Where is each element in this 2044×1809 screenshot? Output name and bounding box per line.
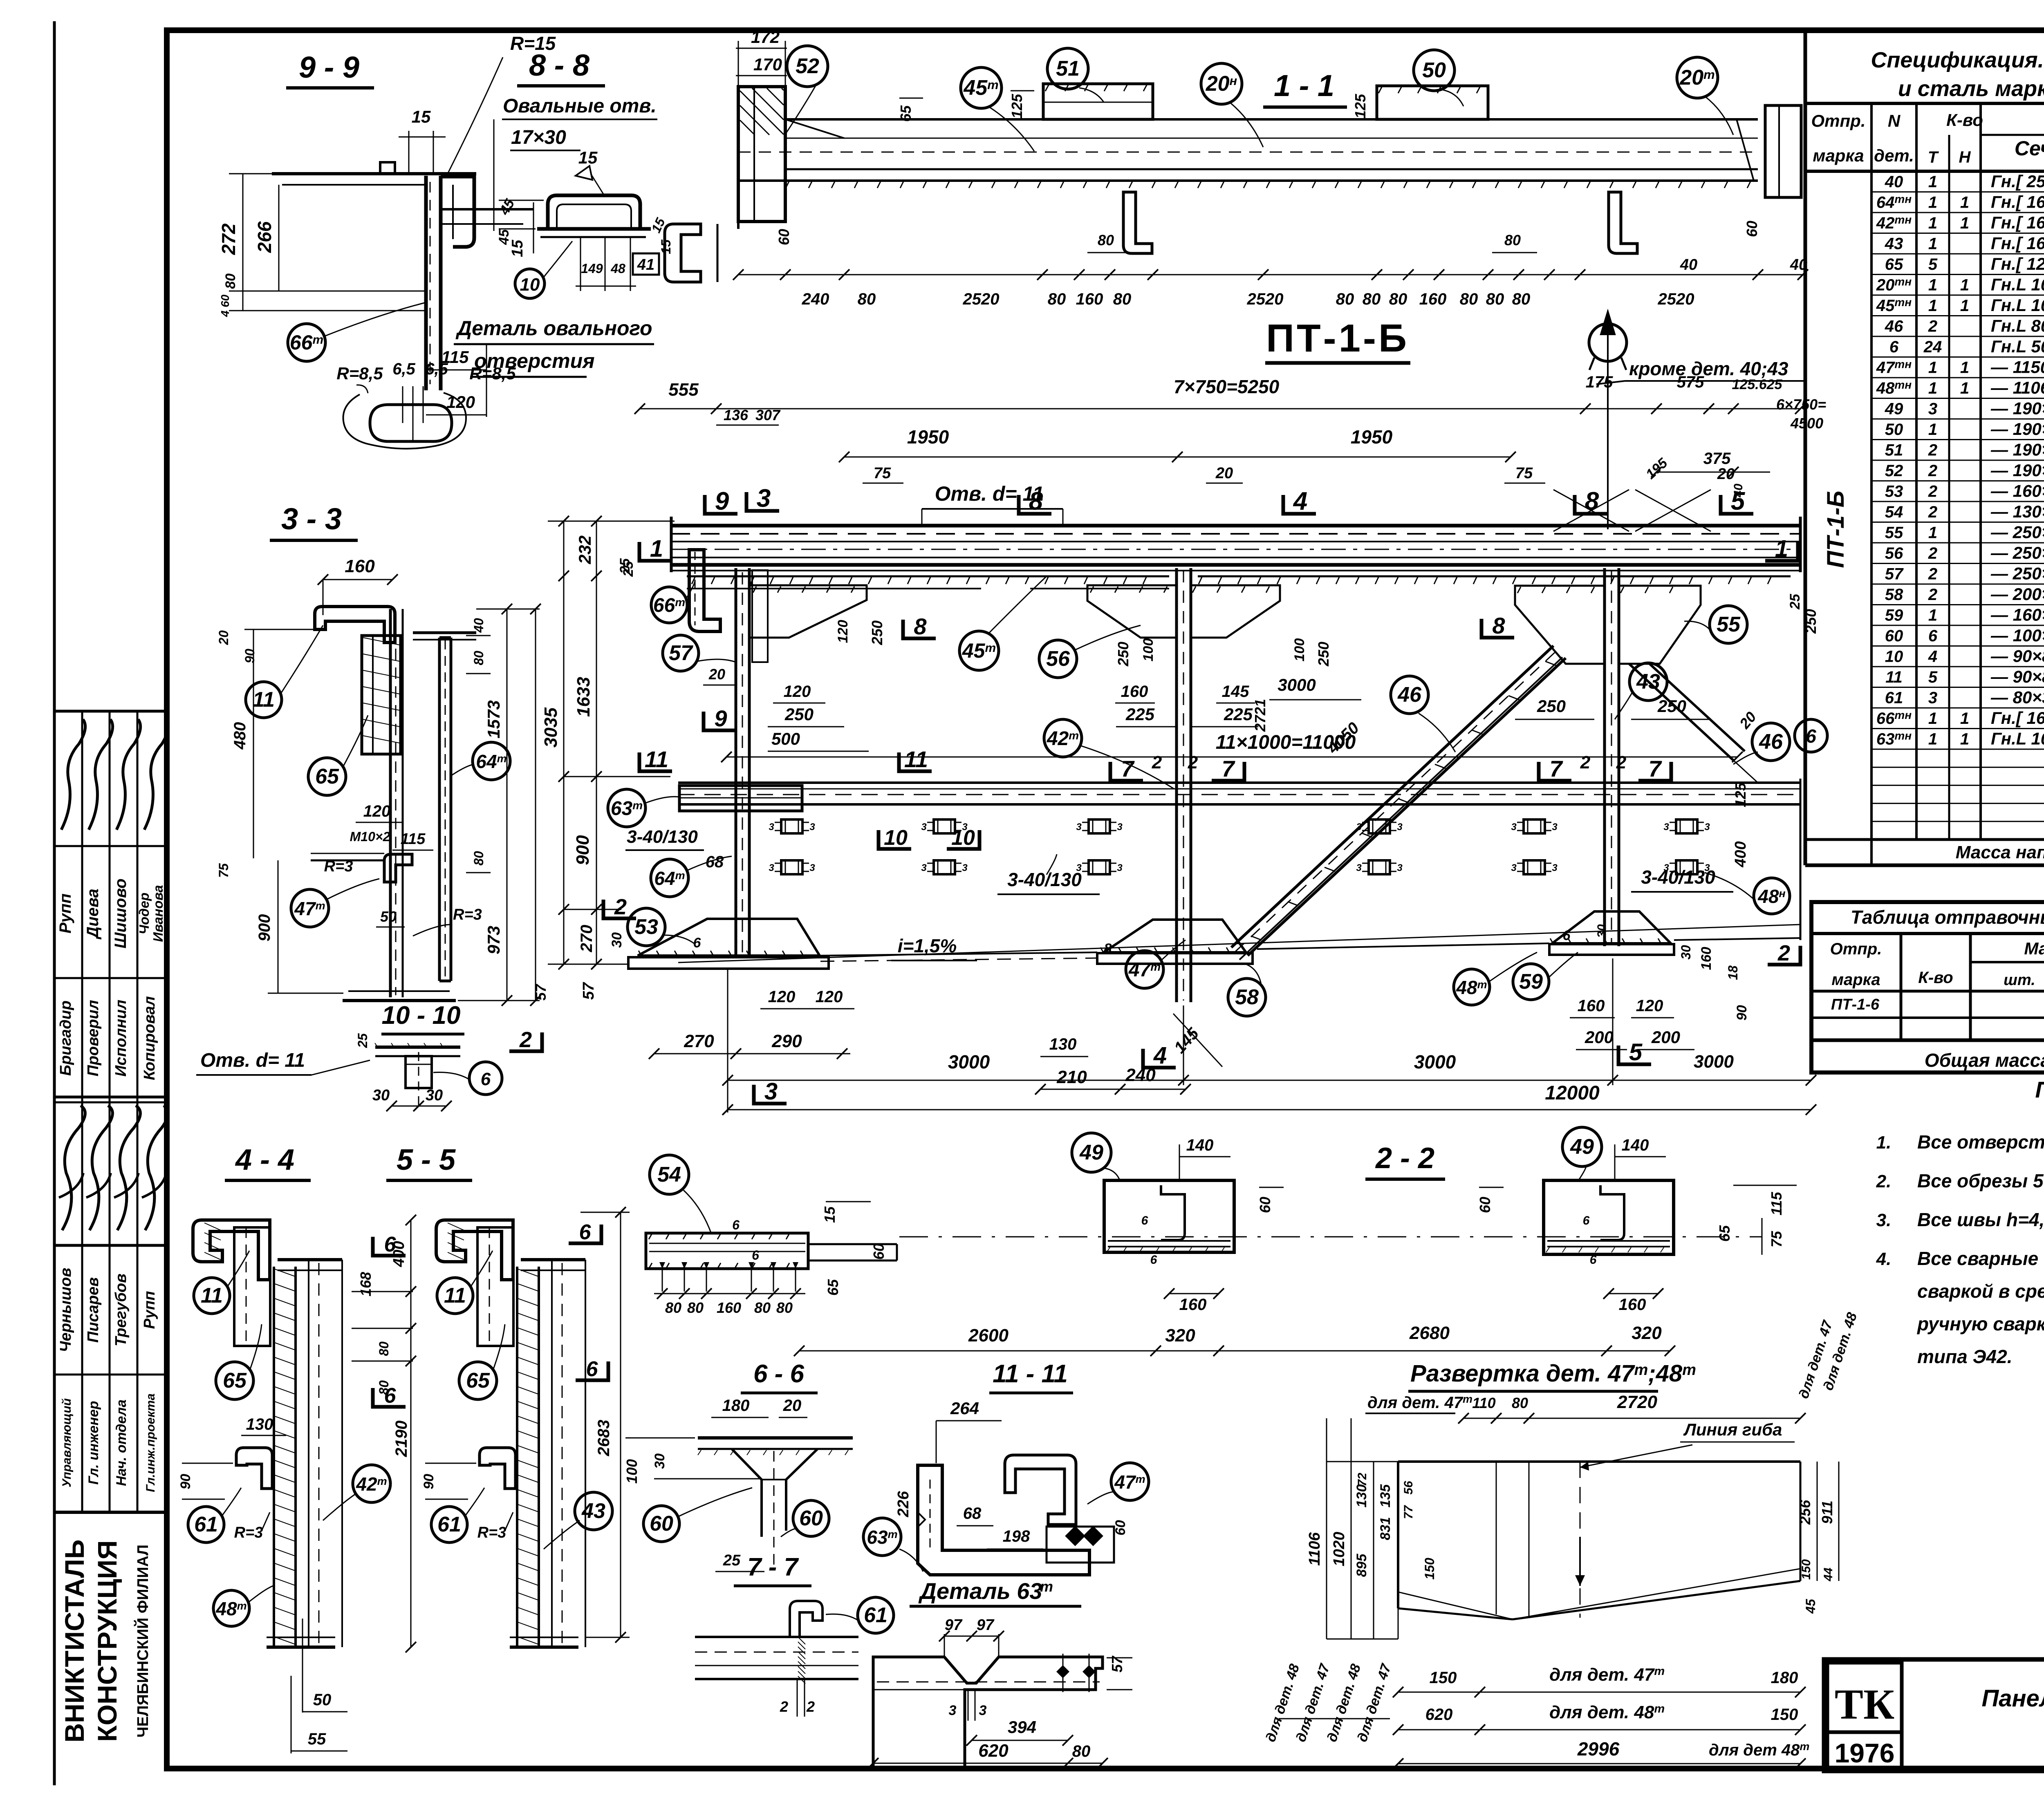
spec table grid	[1805, 102, 2044, 105]
svg-text:Гн.L 50×3: Гн.L 50×3	[1991, 337, 2044, 356]
3-3 post member	[389, 609, 392, 997]
stamp column outline	[54, 710, 167, 713]
svg-text:2: 2	[1188, 752, 1198, 772]
svg-text:90: 90	[242, 649, 257, 663]
svg-text:5 - 5: 5 - 5	[397, 1144, 456, 1176]
2-2 box 49 right dims	[1609, 1293, 1658, 1294]
1-1 left end plate 52	[738, 87, 785, 222]
svg-text:1: 1	[1928, 524, 1937, 542]
svg-text:2: 2	[1928, 544, 1937, 562]
svg-text:1: 1	[1928, 421, 1937, 439]
1-1 beam body	[785, 118, 1758, 121]
svg-text:11: 11	[1885, 668, 1903, 686]
svg-text:90: 90	[421, 1474, 437, 1489]
sloped bottom edge i=1.5%	[820, 952, 1097, 956]
svg-text:25: 25	[723, 1552, 741, 1569]
svg-text:80: 80	[1113, 290, 1132, 308]
svg-text:264: 264	[950, 1399, 979, 1418]
svg-text:59: 59	[1885, 607, 1903, 625]
3-3 balloons	[246, 682, 282, 718]
svg-text:58: 58	[1235, 985, 1259, 1009]
svg-text:60: 60	[870, 1243, 887, 1260]
svg-text:68: 68	[706, 853, 724, 871]
section 4-4 main bar	[273, 1267, 275, 1647]
svg-text:11 - 11: 11 - 11	[993, 1360, 1068, 1388]
balloon 48н right	[1754, 878, 1790, 914]
section 4-4 hanging plate 65	[234, 1227, 270, 1346]
post 3 (right upright)	[1603, 568, 1606, 946]
svg-text:3-40/130: 3-40/130	[1641, 866, 1715, 888]
svg-text:— 90×8: — 90×8	[1990, 647, 2044, 666]
svg-text:R=8,5: R=8,5	[336, 364, 383, 383]
svg-text:3: 3	[1511, 862, 1517, 873]
11-11 channel on right	[1005, 1455, 1076, 1525]
svg-text:180: 180	[722, 1397, 750, 1415]
svg-text:973: 973	[484, 926, 503, 954]
svg-text:К-во: К-во	[1918, 969, 1953, 987]
svg-text:4 - 4: 4 - 4	[235, 1144, 294, 1176]
1-1 hanger under 50	[1609, 192, 1637, 253]
svg-text:80: 80	[223, 273, 238, 289]
stamp signatures upper block	[61, 719, 85, 830]
svg-text:30: 30	[1679, 945, 1693, 960]
svg-text:50: 50	[1885, 421, 1903, 439]
10-10 dims 30 30	[392, 1106, 446, 1107]
svg-text:46: 46	[1397, 683, 1422, 707]
svg-text:3: 3	[1663, 822, 1669, 833]
section 5-5 top channel 11	[436, 1220, 513, 1280]
svg-text:10: 10	[520, 275, 540, 295]
main view section flags above chord	[705, 495, 737, 514]
svg-text:150: 150	[1771, 1706, 1798, 1724]
post 2 (central upright)	[1175, 568, 1178, 1002]
svg-text:125: 125	[1352, 94, 1369, 119]
svg-text:1: 1	[1928, 359, 1937, 377]
svg-text:11: 11	[904, 746, 928, 772]
bolt clusters on lower panel	[781, 819, 802, 833]
section 9-9 right small flange	[441, 208, 533, 210]
svg-text:2: 2	[1928, 318, 1937, 336]
section 8-8 balloon 10	[515, 269, 545, 298]
balloon 43	[1629, 663, 1667, 701]
svg-text:ЧЕЛЯБИНСКИЙ ФИЛИАЛ: ЧЕЛЯБИНСКИЙ ФИЛИАЛ	[133, 1545, 152, 1737]
section 9-9 top right channel piece	[441, 177, 474, 247]
svg-text:1106: 1106	[1306, 1532, 1323, 1566]
svg-text:3: 3	[1397, 822, 1403, 833]
svg-text:2520: 2520	[1247, 290, 1284, 308]
diagonal hatch ticks	[1251, 661, 1556, 940]
svg-text:240: 240	[802, 290, 829, 308]
svg-text:130: 130	[1049, 1035, 1077, 1053]
svg-text:Рупп: Рупп	[56, 893, 74, 934]
svg-text:49: 49	[1570, 1135, 1594, 1159]
svg-text:1020: 1020	[1331, 1532, 1348, 1567]
svg-text:100: 100	[1141, 638, 1156, 662]
svg-text:2: 2	[1928, 441, 1937, 459]
top chord member	[671, 524, 1800, 528]
svg-text:45: 45	[1803, 1599, 1818, 1614]
svg-text:65: 65	[466, 1369, 490, 1393]
svg-text:125: 125	[1732, 782, 1749, 807]
svg-text:80: 80	[1389, 290, 1407, 308]
svg-text:6,5: 6,5	[425, 360, 448, 378]
svg-text:80: 80	[471, 851, 486, 866]
svg-text:— 130×12: — 130×12	[1990, 502, 2044, 521]
svg-text:6: 6	[481, 1069, 491, 1089]
development right dim ladder	[1817, 1462, 1818, 1581]
svg-text:65: 65	[223, 1369, 247, 1393]
svg-text:2520: 2520	[1658, 290, 1694, 308]
svg-text:1: 1	[1960, 379, 1969, 397]
svg-text:3000: 3000	[1277, 675, 1316, 694]
section 5-5 top cap	[521, 1258, 585, 1261]
svg-text:1950: 1950	[907, 426, 949, 448]
svg-text:марка: марка	[1813, 146, 1864, 165]
svg-text:4500: 4500	[1790, 415, 1823, 432]
svg-text:43: 43	[581, 1499, 605, 1523]
svg-text:6: 6	[1583, 1214, 1590, 1227]
section 8-8 channel (lying)	[548, 195, 640, 229]
svg-text:90: 90	[1734, 1005, 1750, 1021]
left end channel 66т on main view	[689, 550, 720, 631]
svg-text:9: 9	[715, 487, 729, 515]
svg-text:30: 30	[426, 1087, 443, 1104]
svg-text:15: 15	[412, 107, 431, 126]
svg-text:57: 57	[580, 982, 597, 1000]
svg-text:Общая масса:: Общая масса:	[1925, 1050, 2044, 1071]
sheet edge line (left trim)	[53, 21, 56, 1785]
svg-text:8: 8	[1029, 487, 1043, 515]
svg-text:140: 140	[1622, 1136, 1649, 1154]
svg-text:100: 100	[1292, 638, 1307, 662]
TK logo box	[1827, 1663, 1902, 1732]
svg-text:3: 3	[1356, 862, 1362, 873]
svg-text:200: 200	[1651, 1028, 1680, 1047]
svg-text:59: 59	[1519, 970, 1543, 994]
svg-text:620: 620	[978, 1741, 1009, 1761]
svg-text:1: 1	[1928, 730, 1937, 748]
section 4-4 bottom cap	[267, 1646, 335, 1649]
svg-text:6×750=: 6×750=	[1776, 396, 1826, 413]
svg-text:97: 97	[977, 1616, 995, 1634]
svg-text:115: 115	[401, 831, 426, 848]
svg-text:3: 3	[1117, 822, 1123, 833]
svg-text:Деталь овального: Деталь овального	[455, 317, 652, 340]
svg-text:80: 80	[1336, 290, 1354, 308]
main view top dim line 5250	[640, 408, 1800, 410]
svg-text:25: 25	[355, 1033, 370, 1048]
svg-text:R=3: R=3	[453, 906, 482, 923]
svg-text:256: 256	[1797, 1500, 1813, 1525]
svg-text:60: 60	[1885, 627, 1903, 645]
support pad 1	[638, 919, 820, 956]
svg-text:72: 72	[1356, 1473, 1369, 1487]
svg-text:Линия гиба: Линия гиба	[1683, 1420, 1782, 1439]
svg-text:Т: Т	[1928, 148, 1939, 166]
svg-text:911: 911	[1819, 1500, 1836, 1524]
svg-text:3: 3	[764, 1078, 778, 1105]
svg-text:Иванова: Иванова	[150, 885, 166, 942]
svg-text:8 - 8: 8 - 8	[529, 48, 590, 82]
svg-text:75: 75	[1768, 1231, 1785, 1247]
1-1 balloons	[787, 46, 828, 87]
svg-text:20: 20	[783, 1397, 802, 1415]
main view end flags 1	[639, 542, 672, 561]
svg-text:Отпр.: Отпр.	[1830, 940, 1882, 958]
svg-text:56: 56	[1885, 544, 1903, 562]
svg-text:30: 30	[609, 932, 625, 948]
svg-text:Гн.[ 160×80×4: Гн.[ 160×80×4	[1991, 193, 2044, 212]
1-1 hanger under 51	[1123, 192, 1152, 253]
svg-text:1976: 1976	[1835, 1738, 1895, 1768]
svg-text:9: 9	[714, 705, 727, 731]
svg-text:61: 61	[194, 1513, 218, 1536]
svg-text:— 250×8: — 250×8	[1990, 523, 2044, 542]
svg-text:марка: марка	[1831, 971, 1880, 989]
svg-text:125: 125	[1009, 94, 1025, 119]
svg-text:ПТ-1-Б: ПТ-1-Б	[1266, 316, 1409, 360]
svg-text:3: 3	[1356, 822, 1362, 833]
svg-text:i=1,5%: i=1,5%	[898, 935, 957, 956]
main view dim line 1950	[844, 457, 1511, 458]
svg-text:56: 56	[1046, 647, 1070, 671]
spec table data rows	[1871, 191, 2044, 193]
svg-text:3: 3	[809, 862, 815, 873]
svg-text:97: 97	[945, 1616, 963, 1634]
section 9-9 dim 15 right	[482, 209, 533, 210]
svg-text:Все сварные швы выполнять полу: Все сварные швы выполнять полуавтоматиче…	[1917, 1248, 2044, 1269]
svg-text:1: 1	[1960, 214, 1969, 232]
svg-text:11: 11	[645, 746, 668, 772]
flag 8 below chord right	[1481, 619, 1514, 638]
svg-text:типа Э42.: типа Э42.	[1917, 1346, 2012, 1367]
svg-text:3 - 3: 3 - 3	[281, 502, 342, 536]
svg-text:50: 50	[380, 908, 397, 925]
svg-text:160: 160	[1619, 1296, 1646, 1314]
svg-text:44: 44	[1822, 1567, 1835, 1582]
svg-text:30: 30	[372, 1087, 390, 1104]
svg-text:7: 7	[1549, 756, 1563, 781]
svg-text:Гн.L 100×5: Гн.L 100×5	[1991, 275, 2044, 294]
svg-text:— 200×8: — 200×8	[1990, 584, 2044, 604]
main view left dim chains	[563, 521, 565, 964]
svg-text:6: 6	[732, 1218, 740, 1232]
svg-text:Чернышов: Чернышов	[57, 1268, 74, 1352]
svg-text:Масса наплавленного металла 1%: Масса наплавленного металла 1%	[1956, 842, 2044, 862]
svg-text:3000: 3000	[1414, 1051, 1456, 1072]
svg-text:43: 43	[1885, 235, 1903, 253]
flag 9 below chord	[704, 712, 736, 730]
svg-text:4: 4	[1153, 1042, 1167, 1069]
svg-text:75: 75	[874, 465, 891, 482]
svg-text:Гн.L 80×4: Гн.L 80×4	[1991, 316, 2044, 336]
svg-text:3: 3	[962, 822, 968, 833]
svg-text:575: 575	[1677, 373, 1704, 391]
svg-text:3: 3	[979, 1703, 987, 1718]
svg-text:2: 2	[1152, 752, 1162, 772]
svg-text:2: 2	[806, 1698, 815, 1715]
flag 3 4 5 below	[754, 1085, 787, 1104]
svg-text:Гн.[ 160×80×4: Гн.[ 160×80×4	[1991, 234, 2044, 253]
svg-text:3: 3	[1511, 822, 1517, 833]
svg-text:80: 80	[1512, 1395, 1528, 1411]
svg-text:Управляющий: Управляющий	[60, 1398, 74, 1487]
svg-text:1: 1	[1928, 194, 1937, 212]
svg-text:дет.: дет.	[1874, 146, 1914, 165]
svg-text:1: 1	[650, 535, 663, 562]
svg-text:— 160×8: — 160×8	[1990, 605, 2044, 625]
svg-text:1: 1	[1960, 194, 1969, 212]
svg-text:25: 25	[1787, 593, 1803, 610]
svg-text:Н: Н	[1959, 148, 1971, 166]
10-10 top plate	[375, 1046, 460, 1049]
svg-text:80: 80	[776, 1299, 793, 1316]
svg-text:3: 3	[1928, 400, 1937, 418]
svg-text:КОНСТРУКЦИЯ: КОНСТРУКЦИЯ	[92, 1540, 122, 1742]
svg-text:2683: 2683	[595, 1420, 613, 1457]
support pad 2	[1104, 920, 1246, 952]
svg-text:1.: 1.	[1876, 1133, 1892, 1153]
svg-text:170: 170	[753, 55, 782, 74]
svg-text:1: 1	[1928, 607, 1937, 625]
2-2 axis line	[899, 1236, 1762, 1238]
svg-text:80: 80	[858, 290, 876, 308]
svg-text:2: 2	[1580, 752, 1591, 772]
svg-text:57: 57	[669, 641, 693, 665]
section 9-9 balloon 66т	[288, 324, 325, 361]
svg-text:49: 49	[1885, 400, 1903, 418]
section 5-5 extra labels	[575, 1492, 612, 1530]
svg-text:сваркой в среде углекислого га: сваркой в среде углекислого газа; в случ…	[1917, 1281, 2044, 1302]
svg-text:2: 2	[1928, 565, 1937, 583]
svg-text:1: 1	[1928, 173, 1937, 191]
svg-text:6: 6	[693, 935, 702, 951]
stamp signatures lower block	[62, 1106, 85, 1230]
3-3 middle angle 47т	[384, 854, 412, 882]
svg-text:2720: 2720	[1617, 1392, 1657, 1412]
svg-text:20: 20	[708, 666, 725, 683]
svg-text:Трегубов: Трегубов	[112, 1274, 130, 1346]
top chord connection plates band	[687, 575, 1169, 578]
svg-text:80: 80	[665, 1299, 681, 1316]
svg-text:6: 6	[1150, 1253, 1157, 1267]
svg-text:120: 120	[816, 988, 843, 1006]
svg-text:2: 2	[1777, 941, 1790, 965]
svg-text:7: 7	[1648, 756, 1662, 781]
bottom dim chain 3000	[727, 969, 728, 1113]
svg-text:110: 110	[1472, 1395, 1495, 1411]
svg-text:Панель торца ПТ-1-6 шириной 1: Панель торца ПТ-1-6 шириной 12м	[1981, 1685, 2044, 1712]
2-2 bottom dim chain	[799, 1350, 1670, 1352]
bottom dim chain 12000	[728, 1109, 1811, 1110]
svg-text:Все отверстия d=23,: Все отверстия d=23,	[1917, 1131, 2044, 1153]
balloon 64т	[651, 859, 688, 897]
svg-text:250: 250	[1315, 642, 1332, 667]
svg-text:58: 58	[1885, 586, 1903, 604]
svg-text:40: 40	[471, 618, 486, 633]
10-10 center block	[406, 1056, 432, 1088]
svg-text:3: 3	[769, 822, 774, 833]
svg-text:270: 270	[578, 925, 596, 953]
svg-text:Проверил: Проверил	[85, 1000, 102, 1077]
lower chord left end 63т	[679, 786, 802, 811]
svg-text:160: 160	[1179, 1296, 1207, 1314]
balloon 45т on panel	[959, 631, 999, 670]
1-1 bottom dim chain	[738, 274, 1803, 275]
svg-text:120: 120	[784, 683, 811, 701]
1-1 beam left lower flange	[737, 181, 740, 229]
svg-text:Спецификация. Сталь марки ВСт3: Спецификация. Сталь марки ВСт3пс6 по ГОС…	[1871, 48, 2044, 72]
svg-text:3: 3	[1117, 862, 1123, 873]
svg-text:160: 160	[1578, 997, 1605, 1015]
svg-text:80: 80	[1048, 290, 1066, 308]
svg-text:30: 30	[652, 1453, 668, 1469]
6-6 funnel	[732, 1449, 818, 1537]
svg-text:Шишово: Шишово	[112, 878, 130, 948]
3-3 left dim chain	[253, 629, 254, 858]
svg-text:2: 2	[614, 895, 627, 919]
svg-text:160: 160	[1121, 683, 1148, 701]
svg-text:168: 168	[357, 1272, 374, 1296]
section 5-5 flag 6	[569, 1225, 601, 1243]
svg-text:232: 232	[575, 535, 594, 564]
svg-text:175: 175	[1586, 373, 1613, 391]
svg-text:20: 20	[1215, 465, 1233, 482]
svg-text:65: 65	[1885, 255, 1903, 273]
7-7 hook on top	[790, 1601, 823, 1637]
section 8-8 piece mark 41	[633, 253, 659, 275]
svg-text:272: 272	[218, 223, 239, 255]
svg-text:ВНИКТИСТАЛЬ: ВНИКТИСТАЛЬ	[59, 1540, 90, 1743]
svg-text:52: 52	[796, 54, 819, 78]
svg-text:46: 46	[1759, 730, 1783, 754]
svg-text:R=3: R=3	[477, 1524, 507, 1541]
svg-text:6: 6	[384, 1233, 397, 1256]
svg-text:Все обрезы 50,: Все обрезы 50,	[1917, 1170, 2044, 1191]
development bottom dim rows	[1398, 1692, 1800, 1693]
svg-text:48: 48	[610, 261, 625, 276]
svg-text:375: 375	[1703, 450, 1731, 468]
svg-text:895: 895	[1354, 1554, 1369, 1577]
svg-text:1573: 1573	[484, 700, 503, 738]
svg-text:1: 1	[1928, 214, 1937, 232]
spec table empty rows	[1871, 767, 2044, 768]
svg-text:400: 400	[1732, 841, 1749, 867]
svg-text:1633: 1633	[574, 677, 594, 717]
svg-text:— 90×8: — 90×8	[1990, 667, 2044, 686]
svg-text:90: 90	[178, 1474, 193, 1489]
svg-text:120: 120	[768, 988, 796, 1006]
svg-text:80: 80	[1460, 290, 1478, 308]
svg-text:80: 80	[1486, 290, 1504, 308]
svg-text:6: 6	[1141, 1214, 1148, 1227]
svg-text:для дет 48т: для дет 48т	[1709, 1740, 1809, 1759]
svg-text:80: 80	[471, 651, 486, 665]
svg-text:80: 80	[1512, 290, 1531, 308]
svg-text:160: 160	[1076, 290, 1103, 308]
svg-text:40: 40	[1790, 256, 1807, 273]
svg-text:6 - 6: 6 - 6	[753, 1360, 805, 1388]
svg-text:140: 140	[1186, 1136, 1214, 1154]
svg-text:ПТ-1-6: ПТ-1-6	[1831, 996, 1880, 1013]
svg-text:3: 3	[1704, 822, 1710, 833]
svg-text:1: 1	[1960, 276, 1969, 294]
svg-text:180: 180	[1771, 1669, 1798, 1687]
3-3 bottom base	[343, 999, 456, 1002]
svg-text:80: 80	[1363, 290, 1381, 308]
svg-text:57: 57	[532, 983, 549, 1001]
svg-text:R=8,5: R=8,5	[469, 364, 516, 383]
